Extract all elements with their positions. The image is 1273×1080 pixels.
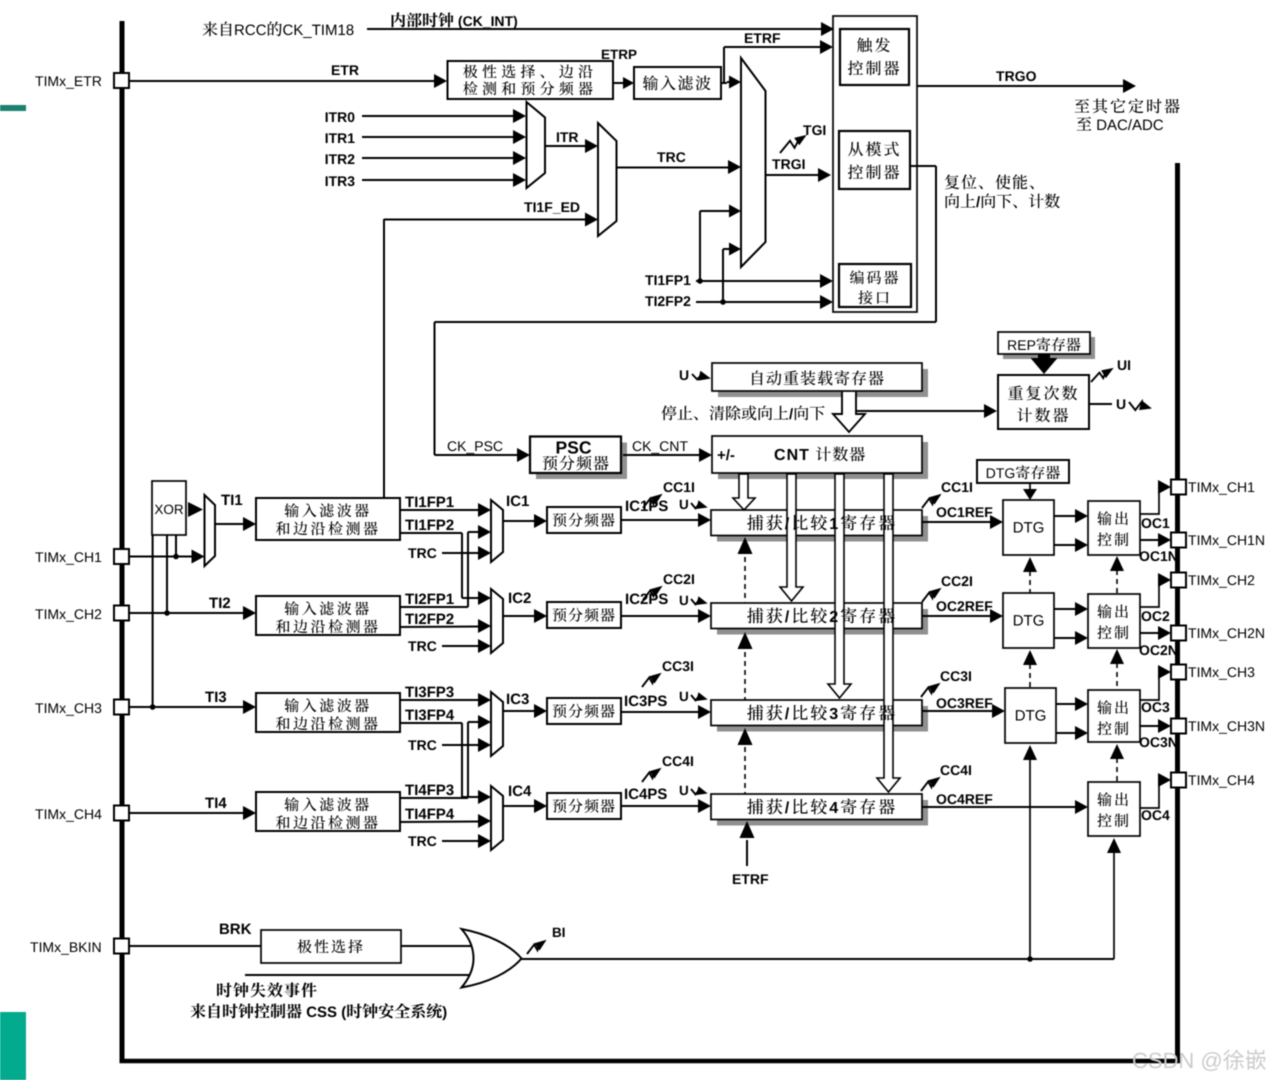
label 来自RCC的CK_TIM18 — [202, 22, 217, 37]
label TI1FP2 — [405, 520, 414, 530]
label ITR — [557, 132, 559, 142]
box CNT counter CNT 计数器 — [718, 442, 928, 479]
box capture/compare register 3 — [717, 706, 928, 732]
wire IC1 to prescaler — [503, 520, 536, 522]
label BRK — [220, 924, 229, 934]
wires ITR0-ITR3 — [362, 115, 516, 117]
label IC2 — [509, 593, 511, 603]
wire TI1F_ED from input filter 1 — [384, 219, 588, 221]
wire TRC to IC4 mux — [408, 836, 416, 846]
label IC2PS — [626, 594, 628, 604]
wire TIMx_CH1 to mux — [129, 556, 194, 558]
label TI3FP3 — [405, 687, 414, 697]
box 触发控制器 — [840, 29, 909, 85]
box prescaler 4 预分频器 — [547, 793, 621, 819]
label TI4FP3 — [405, 785, 414, 795]
hollow arrow CNT to capture 2 — [780, 474, 803, 601]
label 来自时钟控制器 CSS (时钟安全系统) — [190, 1003, 205, 1018]
label OC1 — [1142, 518, 1152, 528]
hollow arrow auto-reload to CNT — [833, 392, 865, 432]
label ETRF — [745, 33, 753, 43]
arrows DTG3 to output control — [1056, 703, 1077, 705]
label CK_PSC — [448, 441, 457, 451]
box output control 1 输出控制 — [1088, 501, 1140, 555]
box DTG 2 — [1003, 593, 1054, 648]
box prescaler 2 预分频器 — [547, 602, 621, 628]
mux IC2 — [491, 589, 503, 653]
squiggle CC3I left — [663, 661, 672, 671]
label TI1 — [221, 495, 230, 505]
wire OC2 to pad — [1140, 580, 1162, 607]
label 内部时钟 (CK_INT) — [392, 12, 406, 27]
label 复位、使能、 — [945, 175, 959, 190]
label TIMx_ETR — [35, 76, 43, 86]
labels ITR0-ITR3 — [326, 112, 328, 122]
pad TIMx_CH4 right — [1171, 773, 1186, 788]
squiggle CC4I right — [941, 765, 950, 775]
big module frame right border — [1175, 163, 1180, 1061]
label TRC — [657, 152, 665, 162]
label 至其它定时器 — [1075, 99, 1090, 113]
label ETRP — [602, 50, 610, 59]
label OC4REF — [937, 794, 947, 804]
wire TI3FP4 down to IC4 mux — [400, 722, 462, 724]
box output control 4 输出控制 — [1088, 782, 1140, 836]
mux trigger input select — [741, 58, 766, 267]
wire OC1N to pad — [1140, 539, 1162, 541]
pad TIMx_CH1N right — [1171, 533, 1186, 548]
hollow arrow CNT to capture 4 — [877, 474, 900, 792]
label TI4 — [205, 798, 214, 808]
squiggle CC4I left — [663, 756, 672, 766]
dashed wire capture4 preload to capture3 — [744, 747, 746, 794]
box 编码器接口 — [839, 264, 911, 307]
label TIMx_CH1N right — [1188, 535, 1196, 545]
label OC3N — [1140, 737, 1150, 747]
label ETR — [332, 65, 340, 75]
label TIMx_CH4 left — [35, 809, 43, 819]
wire TRC to IC2 mux — [408, 641, 416, 651]
green accent rect bottom-left — [0, 1012, 26, 1080]
wire OC2REF — [922, 615, 992, 617]
label IC1 — [507, 496, 509, 506]
wire TI4FP4 to IC4 mux — [400, 821, 480, 824]
XOR tap verticals to CH1 CH2 CH3 — [152, 535, 154, 707]
label TI2FP2 — [405, 614, 414, 624]
box DTG 1 — [1003, 500, 1054, 555]
label IC4PS — [625, 789, 627, 799]
label IC4 — [509, 786, 511, 796]
label TI2 — [209, 598, 218, 608]
label TI3FP4 — [405, 710, 414, 720]
wire slave mode controller to prescaler clock path — [910, 165, 936, 167]
box input filter and edge detector 2 输入滤波器和边沿检测器 — [256, 596, 400, 635]
dashed chain DTG column — [1029, 759, 1031, 959]
label IC3 — [507, 694, 509, 704]
wire IC2PS to capture register — [621, 615, 699, 617]
wire IC1PS to capture register — [621, 519, 699, 521]
wire TI1FP2 down to IC2 mux — [400, 532, 462, 534]
wire TI1 to input filter 1 — [215, 523, 245, 525]
label TI2FP2 trigger — [645, 296, 653, 306]
wire TRC to IC1 mux — [408, 548, 416, 558]
label OC2N — [1140, 645, 1150, 655]
label OC3REF — [937, 698, 947, 708]
arrows DTG1 to output control — [1054, 515, 1077, 517]
wire TRC to trigger mux — [617, 167, 734, 169]
label TGI — [803, 125, 811, 135]
label TIMx_CH2 right — [1188, 575, 1196, 585]
box input filter and edge detector 4 输入滤波器和边沿检测器 — [256, 792, 400, 831]
box REP register REP寄存器 — [1003, 337, 1095, 359]
squiggle U out of repetition counter — [1089, 403, 1112, 405]
box input filter and edge detector 3 输入滤波器和边沿检测器 — [256, 693, 400, 732]
OR gate — [462, 929, 522, 988]
wire clock fail to OR gate — [245, 974, 476, 976]
label TI2FP1 — [405, 594, 414, 604]
squiggle U into capture 1 — [680, 500, 688, 509]
wire IC4PS to capture register — [621, 805, 699, 807]
wire OC3REF — [922, 710, 994, 712]
box output control 3 输出控制 — [1088, 690, 1140, 742]
wire OC4 to pad — [1140, 780, 1162, 808]
big module frame left border — [120, 21, 125, 1061]
label 捕获/比较2寄存器 — [747, 608, 763, 624]
arrows DTG2 to output control — [1054, 608, 1077, 610]
watermark CSDN — [1133, 1053, 1147, 1069]
label OC4 — [1142, 810, 1152, 820]
pad TIMx_BKIN — [114, 939, 129, 954]
mux IC1 — [491, 500, 503, 562]
pad TIMx_CH1 right — [1171, 480, 1186, 495]
pad TIMx_ETR — [114, 73, 129, 88]
box prescaler 3 预分频器 — [547, 698, 621, 724]
label OC1N — [1140, 551, 1150, 561]
wire TRGO output — [917, 85, 1123, 87]
squiggle CC3I right — [941, 671, 950, 681]
wire TI2FP1 up to IC1 mux — [400, 606, 468, 608]
wire IC3 to prescaler — [503, 710, 536, 712]
squiggle U into capture 2 — [680, 596, 688, 605]
pad TIMx_CH3 — [114, 700, 129, 715]
label IC1PS — [626, 501, 628, 511]
label 捕获/比较3寄存器 — [747, 705, 763, 721]
box capture/compare register 1 — [717, 516, 928, 542]
label OC1REF — [937, 507, 947, 517]
squiggle U into capture 3 — [680, 692, 688, 701]
wire CK_INT to trigger controller — [367, 28, 824, 30]
wire TI2FP2 to IC2 mux — [400, 626, 480, 629]
wire TRGI — [766, 174, 822, 176]
label 向上/向下、计数 — [946, 194, 960, 209]
label TIMx_BKIN — [30, 942, 38, 952]
box polarity select edge detect prescaler 极性选择、边沿检测和预分频器 — [448, 61, 614, 99]
wire BRK — [129, 945, 261, 947]
wire ITR — [545, 145, 588, 147]
label TRGI — [772, 159, 780, 169]
squiggle U into capture 4 — [680, 786, 688, 795]
hollow arrow CNT to capture 1 — [733, 474, 755, 510]
wire BI output — [522, 958, 1115, 960]
XOR box — [152, 481, 186, 535]
wire TI3 — [129, 706, 245, 708]
wire TI4 — [129, 812, 245, 814]
label 捕获/比较4寄存器 — [747, 799, 763, 815]
wire TI3FP3 to IC3 mux — [400, 699, 480, 701]
squiggle UI interrupt — [1091, 373, 1105, 382]
wire CK_CNT — [623, 454, 700, 456]
label TIMx_CH2 left — [35, 609, 43, 619]
box capture/compare register 2 — [717, 609, 928, 635]
wire IC3PS to capture register — [621, 711, 699, 713]
pad TIMx_CH2 — [114, 606, 129, 621]
wire polarity to OR gate — [401, 945, 476, 947]
label TIMx_CH2N right — [1188, 628, 1196, 638]
wire OC4REF — [922, 806, 1077, 808]
label 捕获/比较1寄存器 — [747, 515, 763, 531]
label TI1F_ED — [524, 202, 532, 212]
box capture/compare register 4 — [717, 800, 928, 826]
wire ETRP — [613, 82, 626, 84]
mux IC3 — [491, 692, 503, 756]
wire IC4 to prescaler — [503, 805, 536, 807]
pad TIMx_CH2 right — [1171, 573, 1186, 588]
label 至 DAC/ADC — [1077, 117, 1092, 131]
pad TIMx_CH3N right — [1171, 719, 1186, 734]
pad TIMx_CH3 right — [1171, 665, 1186, 680]
wire U update to repetition counter — [856, 410, 985, 412]
mux TRC select — [598, 123, 617, 236]
label TIMx_CH3N right — [1188, 721, 1196, 731]
wire TI4FP3 up to IC3 mux — [400, 797, 468, 799]
label TI3 — [205, 692, 214, 702]
label TI4FP4 — [405, 809, 414, 819]
squiggle BI — [527, 945, 539, 954]
box PSC prescaler PSC 预分频器 — [536, 443, 627, 480]
squiggle CC1I right — [942, 482, 951, 492]
wire ETRF up to trigger controller — [723, 47, 725, 83]
box prescaler 1 预分频器 — [547, 507, 621, 533]
wire OC3N to pad — [1140, 725, 1162, 727]
box repetition counter 重复次数计数器 — [998, 375, 1089, 429]
wire ETRF branch to trigger mux — [721, 82, 727, 84]
box DTG 3 — [1005, 688, 1056, 743]
dashed wire capture2 preload to capture1 — [744, 557, 746, 603]
arrow REP to repetition counter — [1038, 354, 1050, 359]
wire OC2N to pad — [1140, 632, 1162, 634]
squiggle CC2I left — [664, 574, 673, 584]
dashed wire capture3 preload to capture2 — [744, 652, 746, 700]
wire IC2 to prescaler — [503, 615, 536, 617]
wire ETRF into capture 4 — [746, 840, 748, 866]
wire TI1FP1 to IC1 mux — [400, 509, 480, 511]
squiggle TGI interrupt arrow — [780, 141, 798, 154]
label TI1FP1 trigger — [645, 275, 653, 285]
box polarity select 极性选择 — [261, 930, 401, 963]
label OC3 — [1142, 702, 1152, 712]
label TI1FP1 — [405, 497, 414, 507]
wire OC1 to pad — [1140, 487, 1162, 514]
label OC2 — [1142, 611, 1152, 621]
label TIMx_CH4 right — [1188, 775, 1196, 785]
box trigger controller outer — [833, 16, 917, 312]
XOR output arrow — [188, 502, 203, 517]
teal accent bar top-left — [0, 105, 26, 111]
wire TI2 — [129, 612, 245, 614]
label TIMx_CH3 left — [35, 703, 43, 713]
pad TIMx_CH4 — [114, 806, 129, 821]
hollow arrow CNT to capture 3 — [828, 474, 851, 698]
box output control 2 输出控制 — [1088, 594, 1140, 648]
squiggle U event into auto-reload — [680, 370, 688, 380]
wire OC3 to pad — [1140, 672, 1162, 700]
squiggle CC1I left — [664, 482, 673, 492]
wire OC1REF — [922, 521, 992, 523]
label TRGO — [996, 71, 1004, 81]
wire ETR — [129, 80, 437, 82]
wire TI1FP1 to encoder and trigger mux — [696, 280, 824, 282]
mux ITR select — [527, 102, 546, 188]
label TIMx_CH1 left — [35, 552, 43, 562]
mux IC4 — [491, 786, 503, 850]
label ETRF bottom — [733, 874, 741, 884]
label TIMx_CH1 right — [1188, 482, 1196, 492]
squiggle CC2I right — [942, 576, 951, 586]
label CK_CNT — [633, 441, 642, 451]
wire TRC to IC3 mux — [408, 740, 416, 750]
box input filter and edge detector 1 输入滤波器和边沿检测器 — [256, 498, 400, 540]
box input filter 输入滤波 — [634, 67, 721, 99]
mux TI1 select — [205, 495, 216, 566]
dashed chain output control column — [1113, 851, 1115, 959]
big module frame bottom border — [120, 1059, 1181, 1064]
arrow DTG register to DTG1 — [1029, 483, 1031, 489]
label IC3PS — [625, 696, 627, 706]
box DTG register DTG寄存器 — [977, 460, 1069, 483]
box 从模式控制器 — [839, 131, 910, 189]
box auto-reload register 自动重装载寄存器 — [718, 369, 928, 397]
label OC2REF — [937, 601, 947, 611]
pad TIMx_CH1 — [114, 549, 129, 564]
label TIMx_CH3 right — [1188, 667, 1196, 677]
label 时钟失效事件 — [217, 983, 232, 998]
pad TIMx_CH2N right — [1171, 626, 1186, 641]
label 停止、清除或向上/向下 — [661, 405, 676, 420]
wire TI2FP2 to encoder and trigger mux — [696, 301, 824, 303]
